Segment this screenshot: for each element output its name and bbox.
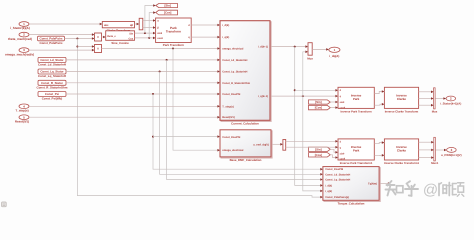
constant Const_R_Stator: [38, 80, 66, 85]
from tag [Sin] row A: [309, 100, 331, 104]
svg-text:sinθ: sinθ: [157, 32, 163, 35]
svg-text:Const_Psi: Const_Psi: [45, 92, 59, 96]
wire theta_mech to Product: [29, 34, 95, 36]
wire Cos to Park in4: [135, 37, 156, 39]
wire from [Sin] B to Inverse Park B in3: [330, 149, 338, 152]
svg-text:Const_Ld_StatorInH: Const_Ld_StatorInH: [222, 59, 247, 62]
svg-text:Reset(0/1): Reset(0/1): [15, 119, 29, 123]
wire Inverse Clarke B out1 to MuxB: [419, 141, 434, 143]
svg-text:omega_electrical: omega_electrical: [222, 149, 243, 152]
demux Demux alpha-beta: [139, 18, 143, 30]
svg-text:Const_FluxPM: Const_FluxPM: [222, 136, 240, 139]
outport 3 u_PWM(k+1)(V): [447, 148, 457, 153]
wire MuxA out to outport 2: [435, 98, 446, 100]
wire Demux1 out2 to Inverse Park B in2: [286, 146, 338, 148]
svg-text:i_d(k+1): i_d(k+1): [258, 46, 268, 49]
wire Const_Lq to Current_Calculation in5: [66, 71, 220, 73]
svg-text:i_Stator(k+1)(A): i_Stator(k+1)(A): [440, 101, 461, 105]
wire Psi branch to Base_EMF in1: [153, 136, 220, 138]
wire Demux out1 alpha to Park in1: [143, 20, 156, 22]
block Current_Calculation: [221, 22, 271, 122]
svg-text:Const_R_Stator: Const_R_Stator: [41, 81, 64, 85]
svg-text:Const_PolePairs: Const_PolePairs: [40, 41, 63, 45]
wire Const_R to Current_Calculation in6: [66, 82, 220, 84]
mux MuxA 3-to-1: [434, 88, 436, 109]
svg-text:T_step(s): T_step(s): [15, 109, 28, 113]
svg-text:αβ: αβ: [130, 24, 134, 27]
svg-text:theta_e: theta_e: [107, 35, 116, 38]
wire Inverse Park A out2 to Inverse Clarke A in2: [374, 104, 384, 105]
from tag [Cos] row B: [309, 153, 331, 157]
constant Const_Lq_Stator: [38, 69, 66, 74]
wire Inverse Park A out1 to Inverse Clarke A in1: [374, 92, 384, 94]
svg-text:Sin: Sin: [129, 32, 133, 35]
product Product theta_mech x polepairs: [95, 33, 102, 41]
svg-text:Const_Lq_StatorInH: Const_Lq_StatorInH: [38, 74, 66, 78]
block Clarke Transform: [102, 22, 134, 28]
svg-text:Park: Park: [353, 97, 360, 101]
wire Product out theta_electrical to Sine_Cosine: [102, 36, 106, 38]
block Torque_Calculation: [324, 168, 380, 202]
wire i_q branch down to Torque in5: [303, 96, 323, 191]
svg-text:Mux1: Mux1: [431, 161, 439, 165]
wire polepairs branch down to Product1 and Torque: [77, 39, 323, 198]
svg-text:[Cos]: [Cos]: [164, 11, 171, 15]
wire omega_electrical branch down to Base_EMF in2: [173, 49, 220, 151]
svg-text:Inverse Clarke Transform: Inverse Clarke Transform: [385, 109, 419, 113]
wire Demux1 out1 to Inverse Park B in1: [286, 140, 338, 142]
inport 5 Reset(0/1): [19, 115, 29, 120]
wire Ld branch down to Torque in3: [167, 60, 323, 180]
wire Torque out Tq: [380, 182, 390, 184]
wire Sin branch up to goto [Sin]: [145, 6, 156, 34]
svg-text:omega_mech(rad/s): omega_mech(rad/s): [5, 52, 34, 56]
svg-text:i_q(k): i_q(k): [325, 190, 332, 193]
svg-text:Mux: Mux: [432, 109, 438, 113]
wire MuxB out to outport 3: [436, 149, 447, 151]
wire Const_Psi to Current_Calculation in7: [66, 93, 220, 95]
watermark zhihu text: [387, 184, 395, 186]
block Inverse Park Transform1: [338, 139, 374, 160]
wire Inverse Clarke A out2 to MuxA: [419, 98, 434, 100]
svg-text:[Cos]: [Cos]: [315, 106, 322, 110]
svg-text:Const_Ld_StatorInH: Const_Ld_StatorInH: [38, 63, 66, 67]
svg-text:i_Stator(k)(A): i_Stator(k)(A): [10, 26, 30, 30]
mux Mux i_dq: [308, 43, 312, 56]
wire Inverse Park B out2 to Inverse Clarke B in2: [374, 154, 384, 156]
block Inverse Park Transform: [338, 87, 374, 108]
svg-text:u_PWM(k+1)(V): u_PWM(k+1)(V): [441, 153, 462, 157]
wire Inverse Clarke A out1 to MuxA: [419, 91, 434, 93]
wire Inverse Clarke B out3 to MuxB: [419, 157, 434, 159]
from tag [Sin] row B: [309, 147, 331, 151]
wire Inverse Clarke A out3 to MuxA: [419, 104, 434, 106]
svg-text:Const_FluxPM: Const_FluxPM: [222, 93, 240, 96]
wire i_Stator to Clarke: [29, 23, 102, 25]
svg-text:omega_electrical: omega_electrical: [222, 48, 243, 51]
wire Current_Calculation out1 i_d(k+1) to Mux in1: [271, 46, 308, 48]
svg-text:theta_mech(rad): theta_mech(rad): [8, 37, 32, 41]
inport 1 i_Stator(k)(A): [19, 22, 29, 27]
wire Demux out2 beta to Park in2: [143, 27, 156, 29]
wire i_q branch up to Mux in2: [303, 52, 308, 96]
svg-text:Const_Psi(Wb): Const_Psi(Wb): [42, 97, 63, 101]
svg-text:Cos: Cos: [128, 38, 133, 41]
svg-text:[Sin]: [Sin]: [164, 4, 170, 8]
wire Park d out to Current_Calculation in1: [191, 24, 220, 26]
inport 3 omega_mech(rad/s): [19, 48, 29, 53]
svg-text:i_d(k): i_d(k): [325, 184, 332, 187]
block Inverse Clarke Transform1: [384, 139, 418, 160]
inport 4 T_step(s): [19, 104, 29, 109]
svg-text:Const_R_StatorInOhm: Const_R_StatorInOhm: [222, 82, 251, 85]
svg-text:@: @: [423, 182, 438, 199]
mux MuxB 3-to-1: [434, 137, 436, 161]
svg-text:sinθ: sinθ: [340, 152, 345, 155]
svg-text:Const_PolePairs: Const_PolePairs: [40, 37, 63, 41]
svg-text:[Cos]: [Cos]: [315, 153, 322, 157]
svg-text:Const_Lq_Stator: Const_Lq_Stator: [40, 70, 64, 74]
svg-text:Const_R_StatorInOhm: Const_R_StatorInOhm: [37, 86, 68, 90]
svg-text:Tq(Nm): Tq(Nm): [368, 182, 377, 185]
svg-text:abc: abc: [104, 24, 109, 27]
wire i_d branch down V1: [295, 47, 323, 186]
wire Inverse Park B out1 to Inverse Clarke B in1: [374, 143, 384, 144]
block Inverse Clarke Transform: [384, 87, 418, 108]
svg-text:T_step(s): T_step(s): [222, 105, 234, 108]
svg-text:Park: Park: [353, 149, 360, 153]
svg-text:sinθ: sinθ: [340, 101, 345, 104]
svg-text:Const_Lq_StatorInH: Const_Lq_StatorInH: [222, 71, 247, 74]
block Park Transform: [156, 18, 192, 43]
wire Current_Calculation out2 i_q(k+1) to Inverse Park A in2: [271, 95, 338, 97]
wire Lq branch down to Torque in2: [160, 72, 323, 175]
wire Psi branch down to Base_EMF in1 and Torque in1: [153, 94, 323, 169]
wire Cos branch up to goto [Cos]: [149, 13, 156, 38]
svg-text:[Sin]: [Sin]: [315, 100, 321, 104]
wire Inverse Clarke B out2 to MuxB: [419, 149, 434, 151]
product Product1 omega_mech x polepairs: [95, 45, 102, 53]
svg-text:Inverse Park Transform: Inverse Park Transform: [341, 109, 373, 113]
svg-text:Const_Lq_StatorInH: Const_Lq_StatorInH: [325, 179, 350, 182]
wire Sin to Park in3: [135, 32, 156, 34]
outport 1 i_dq(A): [329, 47, 340, 52]
svg-text:i_dq(A): i_dq(A): [329, 54, 339, 58]
svg-text:Base_EMF_Calculation: Base_EMF_Calculation: [230, 158, 262, 162]
wire Park q out to Current_Calculation in2: [191, 36, 220, 38]
svg-text:Const_PolePairs(p): Const_PolePairs(p): [325, 196, 349, 199]
svg-text:i_d(k): i_d(k): [222, 24, 229, 27]
svg-text:Park Transform: Park Transform: [163, 43, 185, 47]
wire Const_Ld to Current_Calculation in4: [66, 59, 220, 61]
svg-text:Reset(0/1): Reset(0/1): [222, 116, 235, 119]
svg-text:Inverse Park Transform1: Inverse Park Transform1: [340, 161, 373, 165]
svg-text:Const_FluxPM: Const_FluxPM: [325, 168, 343, 171]
outport 2 i_Stator(k+1)(A): [446, 96, 456, 101]
svg-text:Const_Ld_Stator: Const_Ld_Stator: [40, 58, 64, 62]
svg-text:Const_Ld_StatorInH: Const_Ld_StatorInH: [325, 173, 350, 176]
svg-text:i_q(k+1): i_q(k+1): [258, 95, 268, 98]
svg-text:i_q(k): i_q(k): [222, 36, 229, 39]
wire Const_PolePairs to Product in2: [65, 38, 95, 40]
wire polepairs branch to Product1 in1: [77, 46, 94, 48]
svg-text:Current_Calculation: Current_Calculation: [231, 122, 259, 126]
wire Base_EMF out to Demux1: [272, 143, 283, 145]
svg-text:Clarke: Clarke: [397, 149, 407, 153]
svg-text:Sine_Cosine: Sine_Cosine: [111, 41, 129, 45]
wire Product1 omega_electrical to Current_Calculation in3: [102, 48, 221, 50]
svg-text:cosθ: cosθ: [157, 37, 163, 40]
wire Mux out to outport i_dq: [312, 48, 329, 50]
svg-text:Torque_Calculation: Torque_Calculation: [338, 202, 365, 206]
svg-text:Clarke: Clarke: [397, 97, 407, 101]
wire from [Cos] A to Inverse Park A in4: [330, 107, 338, 109]
wire omega_mech to Product1 in2: [29, 49, 95, 51]
svg-text:[Sin]: [Sin]: [315, 147, 321, 151]
bottom-left small icon: [2, 202, 7, 207]
wire from [Cos] B to Inverse Park B in4: [330, 155, 338, 158]
constant Const_PolePairs: [38, 36, 65, 41]
demux Demux1 u_emf split: [283, 140, 286, 151]
inport 2 theta_mech(rad): [19, 32, 29, 37]
svg-text:u_emf_dq(V): u_emf_dq(V): [253, 143, 269, 146]
svg-text:Inverse Clarke Transform1: Inverse Clarke Transform1: [384, 161, 420, 165]
block Sine_Cosine: [106, 31, 135, 41]
wire Clarke out to Demux: [135, 23, 140, 25]
wire T_step to Current_Calculation in8: [29, 105, 220, 107]
constant Const_Psi: [38, 92, 66, 97]
block Base_EMF_Calculation: [221, 131, 272, 158]
svg-text:Mux: Mux: [307, 56, 313, 60]
wire Reset to Current_Calculation in9: [29, 116, 220, 118]
wire from [Sin] A to Inverse Park A in3: [330, 101, 338, 103]
from tag [Cos] row A: [309, 105, 331, 109]
goto tag [Cos]: [156, 10, 178, 15]
svg-text:Transform: Transform: [166, 30, 181, 34]
constant Const_Ld_Stator: [38, 57, 66, 62]
goto tag [Sin]: [156, 4, 178, 8]
wire i_d branch to Inverse Park A in1: [295, 89, 338, 91]
